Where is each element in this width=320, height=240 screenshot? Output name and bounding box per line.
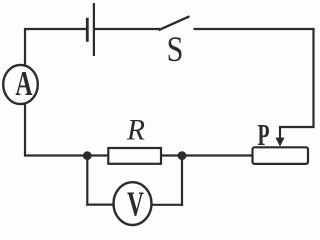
wire bottom right segment (to rheostat) (161, 154, 253, 156)
wire switch to top-right corner, down right side, and wiper feed (194, 29, 314, 140)
ammeter A circle (3, 65, 38, 104)
wire battery to switch (95, 28, 160, 30)
battery B1 long plate (positive) (93, 3, 95, 56)
svg-text:A: A (15, 65, 32, 104)
wire voltmeter branch right vertical (181, 156, 183, 206)
wire voltmeter branch left horizontal (86, 204, 114, 206)
switch S blade (open) (159, 16, 190, 30)
svg-text:S: S (167, 31, 184, 70)
battery B1 short plate (negative) (86, 18, 89, 42)
rheostat P body box (253, 147, 309, 164)
wire top-left corner (ammeter up and across to battery) (25, 29, 87, 66)
wire voltmeter branch right horizontal (152, 204, 184, 206)
wire voltmeter branch left vertical (86, 156, 88, 206)
resistor R body box (108, 148, 161, 164)
voltmeter V circle (114, 182, 152, 225)
svg-text:P: P (257, 117, 269, 152)
svg-text:V: V (127, 186, 144, 224)
junction node right (178, 151, 187, 160)
junction node left (83, 151, 92, 160)
wiper arrowhead (276, 138, 285, 147)
svg-text:R: R (126, 114, 145, 146)
wire bottom-left corner (ammeter down and across to resistor) (25, 104, 108, 156)
